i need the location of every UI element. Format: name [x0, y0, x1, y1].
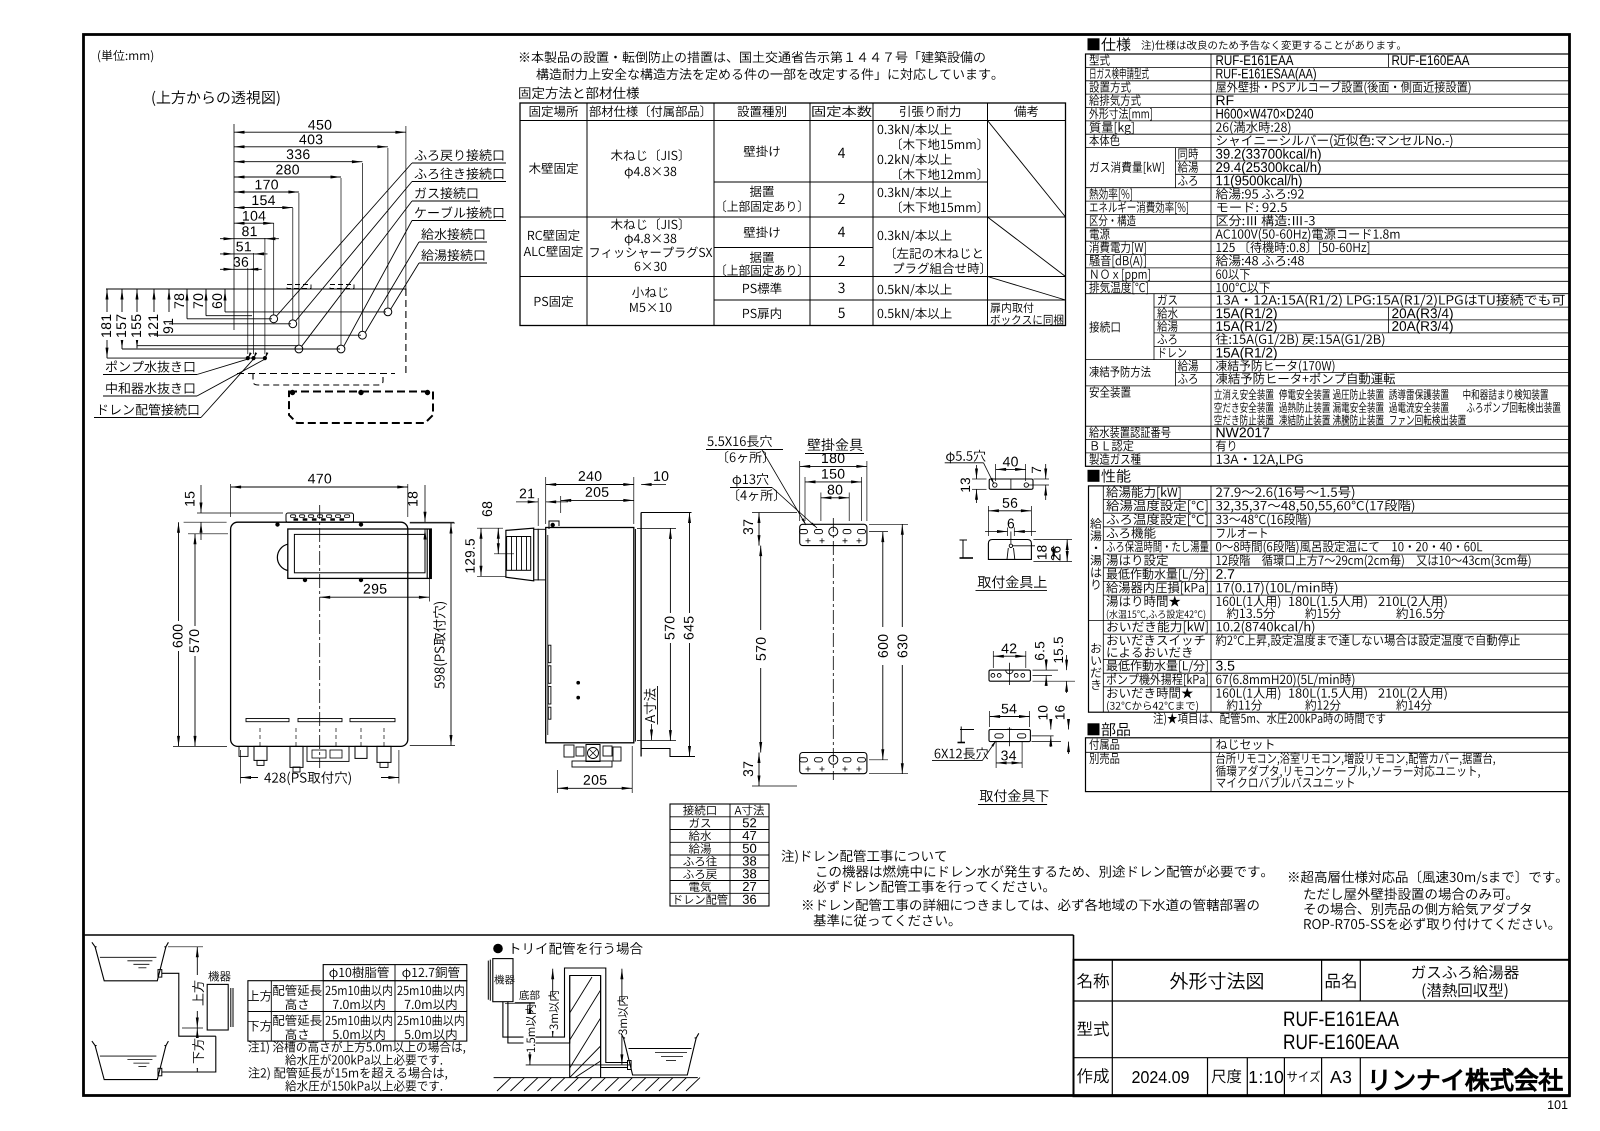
perf value p1 [1216, 486, 1354, 499]
spec label 安全装置 [1090, 386, 1131, 398]
label 5.5X16長穴 [707, 435, 771, 447]
spec value NW2017 [1217, 427, 1270, 437]
pipe lower tub to unit [162, 1036, 216, 1072]
right tub adapter [628, 1061, 632, 1070]
dimension 428 PS mount [240, 750, 242, 784]
dimension 205 top [560, 496, 562, 513]
dimension 15 bracket [197, 512, 283, 514]
wall bracket serrated strip [286, 513, 354, 522]
note star items [1153, 713, 1385, 726]
value A3 [1330, 1071, 1351, 1083]
dimension 34 [995, 741, 997, 768]
label ガス接続口 [415, 187, 477, 199]
spec label 区分・構造 [1090, 215, 1136, 227]
depth dimension 155 [136, 289, 138, 348]
upper tub adapter [158, 970, 162, 978]
spec label 消費電力[W] [1089, 242, 1145, 255]
perf label 給湯器内圧損[kPa] [1106, 582, 1207, 595]
spec label 給水装置認証番号 [1089, 427, 1170, 439]
spec value 安全装置 line3 [1214, 414, 1273, 425]
parts table frame [1086, 738, 1570, 792]
unit front step dashed [253, 374, 383, 386]
leader 6X12 [982, 742, 995, 761]
exhaust duct left bump [277, 544, 287, 570]
perf label 最低作動水量[L/分] [1107, 568, 1208, 581]
leader line 中和器水抜き口 [197, 359, 265, 396]
dimension 450 (top view width) [234, 131, 406, 133]
dimension 180 bracket [799, 461, 801, 521]
lower fitting plate2 [989, 730, 1030, 742]
perf label 湯はり時間 [1107, 595, 1181, 607]
dimension 150 bracket [804, 477, 806, 521]
upper fitting profile [988, 540, 1031, 560]
dimension 3m以内 left [552, 969, 554, 1037]
spec value r18 [1217, 282, 1270, 293]
perf value p4 [1217, 528, 1267, 538]
title row1 dividers [1321, 960, 1323, 1001]
perf group divider [1102, 486, 1104, 712]
給水接続口 port [359, 331, 367, 339]
perf table frame [1089, 486, 1570, 712]
A寸法 row ふろ戻 [683, 869, 717, 879]
depth line 60 [225, 311, 386, 313]
perf value p7 [1216, 569, 1234, 579]
dimension 154 (top view width) [234, 207, 293, 209]
cell PS扉内 [743, 308, 781, 320]
upper bathtub [95, 947, 166, 981]
spec value r12 [1217, 202, 1287, 212]
side dots [577, 681, 580, 684]
cell 木壁固定 [529, 163, 578, 175]
label ふろ戻り接続口 [415, 149, 504, 161]
upper fitting side L mark [962, 540, 964, 558]
unit outline dashed (top view) [405, 289, 407, 374]
cell RC壁固定ALC壁固定 [528, 230, 580, 242]
extension line for 154 [292, 208, 294, 320]
spec label 製造ガス種 [1089, 453, 1140, 465]
cell 固定本数2 [838, 194, 844, 204]
note 超高層仕様 [1289, 870, 1560, 884]
spec model divider [1388, 54, 1390, 67]
spec value r19 [1217, 294, 1565, 307]
perf value p11 [1216, 634, 1520, 647]
dimension 600 bracket [869, 531, 888, 533]
ふろ往き接続口 port [289, 320, 297, 328]
label 6X12長穴 [935, 747, 988, 759]
dimension 21 [537, 498, 539, 526]
spec value r16 [1216, 255, 1304, 267]
unit caption 単位mm [98, 50, 153, 62]
label 給湯接続口 [421, 249, 484, 261]
A寸法 label [644, 688, 656, 723]
spec value r15 [1217, 241, 1370, 254]
drain drain dot [252, 357, 255, 360]
depth line 155 [137, 345, 298, 347]
label 壁掛金具 [807, 438, 862, 451]
perf label 最低作動水量[L/分] [1107, 660, 1208, 673]
dimension 3m以内 right [621, 969, 623, 1065]
給湯接続口 port [384, 308, 392, 316]
perf value p8 [1217, 582, 1338, 595]
spec label エネルギー消費効率[%] [1090, 201, 1188, 214]
perf group 給湯・湯はり vertical [1090, 518, 1101, 529]
perf value p10 [1217, 621, 1315, 634]
wall bottom step [641, 749, 695, 757]
cell 据置1 [750, 186, 774, 198]
leader line ふろ戻り接続口 [277, 163, 413, 316]
cell 耐力PS扉内 [878, 308, 952, 321]
dimension 630 bracket [869, 523, 908, 525]
cell 耐力 木据置 [878, 187, 952, 200]
lower bathtub [95, 1046, 166, 1080]
title 部品 [1088, 722, 1130, 736]
parts value ねじセット [1216, 739, 1273, 750]
A寸法 row ふろ往 [683, 856, 717, 867]
depth line 78 [187, 318, 272, 320]
spec label ＮＯｘ[ppm] [1091, 269, 1150, 282]
piping notes [248, 1041, 465, 1054]
lower fitting plate1 [989, 670, 1030, 681]
depth dimension 60 [224, 289, 226, 312]
spec label 外形寸法[mm] [1089, 108, 1152, 121]
spec sub dividers [1175, 148, 1177, 188]
piping table headers [329, 967, 388, 980]
value 外形寸法図 [1170, 972, 1263, 989]
ground line and hatching [526, 1064, 632, 1066]
spec value 有り [1216, 440, 1235, 452]
spec value r14 [1216, 228, 1400, 241]
dimension 18 [410, 521, 454, 523]
dimension 570 height [188, 533, 228, 535]
label φ5.5穴 [946, 450, 985, 464]
dimension 280 (top view width) [234, 176, 341, 178]
dimension 7 [1029, 484, 1050, 486]
spec label 凍結予防方法 [1089, 366, 1150, 378]
dimension 16 lower [1032, 741, 1062, 743]
dimension 42 [992, 651, 994, 668]
perf row lines [1103, 499, 1569, 501]
label 品名 [1326, 973, 1356, 988]
toriya pipe [503, 968, 627, 1063]
leader line 給湯接続口 [391, 263, 419, 309]
dimension 13 [972, 478, 987, 480]
ふろ戻り接続口 port [270, 315, 278, 323]
dimension 下方 [182, 1027, 203, 1029]
note ドレン配管工事 [782, 850, 946, 864]
dimension 600 height [173, 745, 227, 747]
cell 耐力 木壁掛け [878, 124, 952, 137]
header 備考 [1014, 106, 1038, 118]
spec value 安全装置 line2 [1214, 402, 1273, 413]
left extension line [233, 124, 235, 330]
front center line [319, 505, 321, 768]
exhaust duct front [288, 529, 432, 578]
piping table 下方 row [248, 1020, 272, 1032]
spec label 設置方式 [1089, 81, 1130, 93]
front view body [231, 522, 408, 746]
dimension 598 PS mount [410, 522, 455, 524]
perf value p13 [1216, 674, 1354, 687]
spec label 給排気方式 [1089, 94, 1140, 106]
label サイズ [1287, 1070, 1320, 1082]
title 仕様 [1088, 37, 1131, 51]
piping table [323, 965, 467, 981]
title block frame [1074, 960, 1570, 1096]
header 固定場所 [530, 106, 578, 118]
cell 固定本数4b [838, 227, 845, 237]
dimension 56 [987, 506, 989, 536]
cell 固定本数2b [838, 256, 844, 266]
extension line for 104 [273, 223, 275, 315]
side exhaust duct [506, 528, 534, 581]
caption 上方からの透視図 [152, 90, 279, 106]
upper fitting strip [989, 479, 1033, 489]
remark 扉内取付ボックスに同梱 [990, 302, 1033, 313]
pipe upper tub to unit [162, 973, 216, 1036]
spec value 製造ガス種 [1217, 454, 1303, 466]
leader line ケーブル接続口 [344, 221, 412, 347]
label 型式 [1077, 1021, 1109, 1036]
dimension 645 [689, 513, 691, 757]
depth line 121 [154, 334, 361, 336]
lower bracket dashed box [289, 392, 433, 424]
header 引張り耐力 [900, 106, 960, 118]
perf label ふろ機能 [1107, 527, 1156, 539]
unit 機器 right diagram [493, 959, 513, 1002]
dimension 51 (top view width) [220, 253, 268, 255]
spec label 騒音[dB(A)] [1089, 255, 1145, 268]
header 設置種別 [738, 106, 786, 117]
parts label 別売品 [1089, 753, 1119, 765]
spec label 型式 [1090, 54, 1110, 65]
spec value r6 [1216, 121, 1290, 134]
lower tub adapter [158, 1068, 162, 1076]
side view body [546, 528, 634, 743]
depth dimension 78 [186, 289, 188, 319]
label ふろ往き接続口 [415, 168, 504, 180]
extension line for 403 [387, 148, 389, 308]
cell 耐力RC [878, 230, 952, 243]
depth dimension 91 [168, 289, 170, 324]
lower fitting L mark [960, 729, 974, 731]
dimension 170 (top view width) [234, 191, 299, 193]
leader line ガス接続口 [302, 201, 412, 346]
value 型式 models [1284, 1011, 1399, 1026]
label 取付金具上 [978, 575, 1047, 588]
spec value ドレン [1217, 347, 1277, 360]
perf label おいだき能力[kW] [1107, 621, 1207, 634]
cell 固定本数5 [838, 308, 845, 318]
depth line 157 [122, 348, 340, 350]
extension line right edge 450 [405, 126, 407, 289]
spec value 給水 [1217, 308, 1277, 321]
A寸法 row 接続口 [683, 805, 716, 816]
pump drain dot [246, 357, 249, 360]
dimension 570 bracket [760, 546, 762, 753]
spec value r13 [1217, 215, 1315, 227]
value 1:10 [1250, 1071, 1283, 1083]
company リンナイ株式会社 [1372, 1068, 1562, 1091]
depth line 181 [107, 357, 264, 359]
perf value 湯はり時間 [1217, 596, 1281, 609]
dimension 68 [477, 527, 503, 529]
anchor dots top edge [276, 523, 280, 527]
extension line for 36 [247, 268, 249, 354]
dimension 36 (top view width) [220, 268, 262, 270]
dimension 295 [428, 578, 430, 601]
dimension 26 fitting [1033, 561, 1072, 563]
bracket dots [290, 390, 294, 394]
A寸法 row 電気 [689, 881, 711, 892]
dimension 40 [995, 464, 997, 481]
leader φ5.5 [984, 463, 994, 483]
bracket center line [832, 518, 834, 780]
spec value r3 [1216, 81, 1471, 94]
dimension 54 [989, 711, 991, 727]
exhaust duct right flange [426, 529, 428, 578]
perf label ポンプ機外揚程[kPa] [1107, 673, 1208, 686]
cell 木ねじJIS 4.8x38 [611, 149, 682, 161]
perf value p6 [1217, 554, 1531, 567]
extension line for 170 [298, 193, 300, 345]
dimension 6 [1007, 528, 1009, 537]
remark slash RC [988, 217, 1066, 277]
A寸法 row 給水 [689, 830, 711, 841]
A寸法 row 給湯 [689, 843, 711, 854]
dimension 470 [230, 484, 232, 517]
spec value 外形寸法 [1216, 109, 1313, 119]
perf label おいだき時間 [1107, 687, 1193, 699]
header 部材仕様〔付属部品〕 [589, 105, 703, 117]
unit 機器 left diagram [208, 971, 230, 982]
side bottom fittings [564, 745, 574, 757]
spec table frame [1086, 54, 1570, 466]
wall line [640, 513, 642, 757]
ガス接続口 port [295, 345, 303, 353]
dimension 6.5 [1033, 669, 1059, 671]
dimension 10 lower [1032, 735, 1054, 737]
cell 壁掛け1 [744, 146, 780, 158]
label 給水接続口 [421, 228, 484, 240]
depth dimension 121 [153, 289, 155, 335]
side duct flange [537, 529, 539, 581]
cell 耐力PS標準 [878, 284, 952, 297]
parts label 付属品 [1089, 739, 1119, 750]
leader φ13 [772, 488, 817, 529]
spec table row lines [1086, 66, 1570, 68]
perf label divider [1210, 486, 1212, 712]
label 取付金具下 [980, 789, 1049, 802]
label 尺度 [1212, 1069, 1242, 1083]
perf value p5 [1216, 541, 1482, 554]
chuwa drain dot [263, 357, 266, 360]
dimension 403 (top view width) [234, 146, 388, 148]
dimension 240 [545, 477, 547, 524]
cell 壁掛け2 [744, 227, 780, 239]
depth dimension 70 [205, 289, 207, 316]
spec value r7 [1217, 135, 1452, 148]
extension line for 280 [340, 178, 342, 345]
spec label 熱効率[%] [1089, 188, 1132, 201]
dimension 上方 [168, 946, 203, 948]
heading 固定方法と部材仕様 [519, 87, 639, 99]
label 名称 [1077, 973, 1109, 988]
right bathtub [624, 1038, 697, 1075]
cell 小ねじM5x10 [632, 287, 668, 298]
perf value おいだき時間 [1217, 687, 1281, 700]
dimension 104 (top view width) [234, 222, 274, 224]
perf value p2 [1216, 500, 1414, 513]
unit top edge line (top view) [106, 288, 406, 290]
leader line ふろ往き接続口 [296, 182, 412, 322]
perf label ふろ温度設定[℃] [1107, 514, 1208, 527]
label ドレン配管接続口 [100, 404, 198, 416]
spec label 日ガス検申請型式 [1090, 68, 1148, 80]
cell 固定本数4 [838, 148, 845, 158]
piping table 上方 row [248, 990, 272, 1002]
remark slash PS標準 [988, 277, 1066, 301]
label 底部 [519, 990, 539, 1000]
cell PS標準 [743, 283, 781, 295]
spec value r25 [1216, 373, 1395, 385]
bracket top plate [800, 524, 867, 545]
perf label 給湯温度設定[℃] [1106, 500, 1207, 513]
spec value ガス消費量 [1216, 148, 1321, 161]
label トリイ配管を行う場合 [494, 944, 503, 953]
dimension 129.5 [477, 575, 506, 577]
spec label ガス消費量[kW] [1090, 161, 1164, 174]
spec label 質量[kg] [1090, 121, 1134, 135]
leader line 給水接続口 [365, 242, 419, 332]
duct bottom dot [359, 578, 363, 582]
cell PS固定 [535, 296, 574, 308]
leader 5.5X16 [762, 450, 806, 525]
A寸法 row ドレン配管 [675, 894, 727, 905]
spec label 接続口 [1089, 321, 1119, 333]
spec table label divider [1210, 54, 1212, 466]
extension line for 51 [253, 253, 255, 354]
wall-side dashed strips [287, 285, 311, 289]
perf label ふろ保温時間・たし湯量 [1106, 541, 1208, 553]
dimension 18 fitting [1033, 539, 1072, 541]
cell 据置2 [750, 252, 774, 264]
perf group おいだき vertical [1091, 643, 1101, 653]
title 性能 [1088, 469, 1131, 483]
wall column hatch [569, 976, 571, 1078]
value ガスふろ給湯器 [1412, 965, 1519, 979]
value 2024.09 [1132, 1071, 1188, 1083]
spec value r17 [1216, 269, 1250, 280]
front vent slots [246, 719, 289, 722]
dimension 15.5 [1033, 680, 1076, 682]
ケーブル接続口 port [337, 345, 345, 353]
fixing table header line [520, 120, 1066, 122]
dimension 336 (top view width) [234, 161, 362, 163]
front bottom fittings [239, 746, 248, 756]
remark slash 木壁固定 [988, 121, 1066, 218]
label 作成 [1077, 1068, 1109, 1083]
label ケーブル接続口 [415, 206, 503, 218]
leader line ドレン配管接続口 [201, 359, 254, 417]
label 中和器水抜き口 [106, 382, 194, 394]
spec label ＢＬ認定 [1092, 440, 1134, 452]
extension line for 336 [361, 163, 363, 331]
perf label 給湯能力[kW] [1106, 486, 1180, 499]
spec value 安全装置 line1 [1214, 389, 1273, 400]
spec label 電源 [1090, 228, 1110, 239]
spec label 本体色 [1089, 135, 1119, 147]
perf label 湯はり設定 [1107, 554, 1169, 566]
